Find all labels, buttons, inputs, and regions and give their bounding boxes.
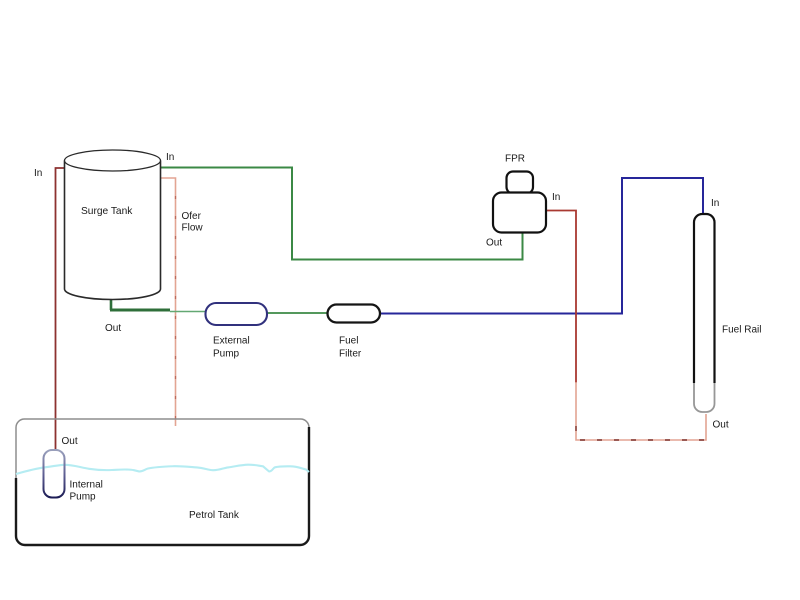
svg-text:Pump: Pump xyxy=(70,492,97,503)
svg-text:External: External xyxy=(213,336,250,347)
svg-text:Out: Out xyxy=(105,323,121,334)
svg-text:Fuel Rail: Fuel Rail xyxy=(722,325,761,336)
svg-text:Internal: Internal xyxy=(70,480,103,491)
svg-text:Out: Out xyxy=(713,420,729,431)
svg-text:In: In xyxy=(552,192,560,203)
svg-text:Fuel: Fuel xyxy=(339,336,358,347)
svg-text:Pump: Pump xyxy=(213,349,240,360)
svg-text:Filter: Filter xyxy=(339,349,362,360)
svg-text:Flow: Flow xyxy=(182,223,204,234)
svg-text:Surge Tank: Surge Tank xyxy=(81,206,133,217)
svg-text:Out: Out xyxy=(62,436,78,447)
svg-text:Out: Out xyxy=(486,238,502,249)
svg-text:In: In xyxy=(34,168,42,179)
svg-text:Petrol Tank: Petrol Tank xyxy=(189,510,240,521)
svg-text:Ofer: Ofer xyxy=(182,211,202,222)
svg-text:In: In xyxy=(166,152,174,163)
svg-text:In: In xyxy=(711,198,719,209)
svg-text:FPR: FPR xyxy=(505,154,525,165)
